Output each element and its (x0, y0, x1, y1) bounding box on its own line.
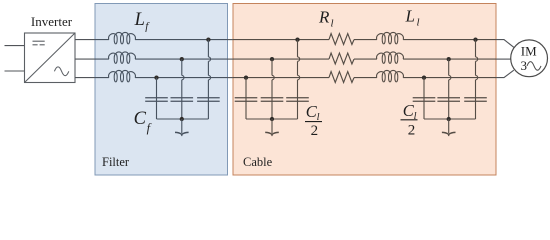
inductor Ll1 (377, 32, 404, 39)
wire drop to Cl1a (245, 78, 247, 119)
node filter bus junction (180, 117, 184, 121)
node cable cap bank2 tap3 (473, 37, 477, 41)
wire drop to Cl2b (448, 59, 450, 75)
resistor Rl3 (329, 72, 354, 83)
wire drop to Cf2 (181, 59, 183, 75)
svg-text:l: l (331, 18, 334, 30)
inductor Lf2 (109, 52, 136, 59)
phase wire C (bottom) (75, 77, 95, 79)
motor IM circle (511, 40, 548, 77)
capacitor Cl2c (464, 97, 487, 99)
node filter cap2 tap (180, 57, 184, 61)
inductor Ll3 (377, 70, 404, 77)
svg-text:l: l (414, 111, 417, 122)
ground (filter) (181, 119, 183, 133)
cable region box (233, 4, 496, 176)
node cable cap bank2 tap1 (422, 75, 426, 79)
svg-text:R: R (318, 7, 330, 26)
svg-text:IM: IM (521, 43, 537, 58)
svg-text:Inverter: Inverter (31, 14, 73, 29)
wire drop to Cl2c (475, 40, 477, 57)
node cable bank2 junction (447, 117, 451, 121)
node cable cap bank1 tap2 (270, 57, 274, 61)
node cable cap bank2 tap2 (447, 57, 451, 61)
node filter cap3 tap (206, 37, 210, 41)
capacitor Cl2a (413, 97, 436, 99)
svg-text:L: L (134, 10, 145, 30)
inductor Lf1 (109, 32, 136, 39)
phase wire B (middle) (75, 58, 95, 60)
node filter cap1 tap (154, 75, 158, 79)
svg-text:2: 2 (311, 123, 319, 139)
capacitor Cl1a (235, 97, 258, 99)
svg-text:l: l (417, 17, 420, 29)
svg-text:Filter: Filter (102, 155, 130, 169)
wire drop to Cl2a (423, 78, 425, 119)
wire drop to Cf3 (207, 40, 209, 57)
filter cap bus wire (157, 118, 209, 120)
resistor Rl1 (329, 34, 354, 45)
resistor Rl2 (329, 53, 354, 64)
svg-text:2: 2 (408, 122, 416, 138)
inductor Ll2 (377, 52, 404, 59)
svg-text:C: C (134, 109, 147, 129)
dc input wire 2 (5, 70, 25, 72)
inverter ac sine symbol (54, 67, 68, 76)
cable bank1 bus wire (246, 118, 298, 120)
inductor Lf3 (109, 70, 136, 77)
svg-text:L: L (405, 7, 415, 26)
cable bank2 bus wire (424, 118, 476, 120)
capacitor Cl1c (286, 97, 309, 99)
dc input wire 1 (5, 45, 25, 47)
capacitor Cf2 (171, 97, 194, 99)
filter region box (95, 4, 228, 176)
svg-text:3: 3 (520, 58, 527, 73)
ground (cable bank2) (448, 119, 450, 133)
inverter dc symbol (33, 40, 45, 42)
inverter U1 box (25, 33, 76, 83)
node cable cap bank1 tap1 (244, 75, 248, 79)
svg-text:Cable: Cable (243, 155, 273, 169)
capacitor Cl2b (437, 97, 460, 99)
wire drop to Cl1b (271, 59, 273, 75)
wire drop to Cl1c (297, 40, 299, 57)
motor sine symbol (527, 62, 541, 71)
node cable cap bank1 tap3 (295, 37, 299, 41)
ground (cable bank1) (271, 119, 273, 133)
capacitor Cf3 (197, 97, 220, 99)
wire drop to Cf1 (156, 78, 158, 119)
node cable bank1 junction (270, 117, 274, 121)
phase wire A (top) (75, 39, 95, 41)
capacitor Cf1 (145, 97, 168, 99)
capacitor Cl1b (261, 97, 284, 99)
